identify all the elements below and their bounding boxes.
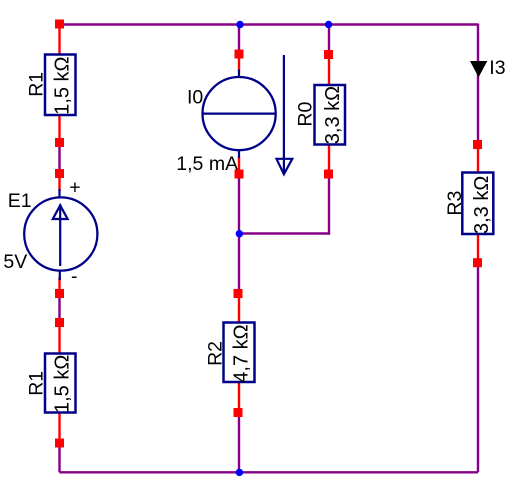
E1 arrow shaft xyxy=(59,204,61,266)
E1 arrow head open triangle xyxy=(53,205,68,219)
terminal square R0 top xyxy=(324,50,333,59)
svg-text:R1: R1 xyxy=(26,371,48,396)
lead red R1 top xyxy=(58,24,60,55)
svg-text:1,5 kΩ: 1,5 kΩ xyxy=(51,56,73,114)
pin stub E1 top xyxy=(58,189,60,199)
resistor R0 box xyxy=(315,85,346,145)
node junction dot bottom xyxy=(236,469,243,476)
lead red E1 minus terminal xyxy=(58,278,60,297)
current arrow I3 filled xyxy=(470,61,487,77)
pin stub I0 bottom xyxy=(238,148,240,158)
terminal square R2 bottom xyxy=(234,408,243,417)
wire top net to R0 xyxy=(328,25,330,53)
terminal square E1 minus xyxy=(55,289,64,298)
svg-text:R2: R2 xyxy=(204,341,226,366)
svg-text:E1: E1 xyxy=(8,190,32,212)
wire bottom net xyxy=(60,471,479,473)
resistor R3 box xyxy=(462,173,493,235)
wire left bottom vertical xyxy=(58,446,60,472)
terminal square lower R1 top xyxy=(55,318,64,327)
resistor R1 upper box xyxy=(45,55,76,116)
terminal square lower R1 bottom xyxy=(55,439,64,448)
wire R2 to bottom net xyxy=(238,414,240,472)
svg-text:I3: I3 xyxy=(489,57,505,79)
lead red R0 bottom xyxy=(328,144,330,177)
lead red R2 bottom xyxy=(238,382,240,415)
svg-text:-: - xyxy=(71,266,78,288)
wire I0 to node B xyxy=(238,177,240,292)
pin stub E1 bottom xyxy=(59,270,61,280)
terminal square R0 bottom xyxy=(324,170,333,179)
wire top net across top xyxy=(60,23,479,25)
lead red R1 bottom xyxy=(58,114,60,144)
lead red lower R1 top xyxy=(58,321,60,354)
I0 chord horizontal line xyxy=(204,112,275,114)
svg-text:+: + xyxy=(69,176,80,198)
svg-text:4,7 kΩ: 4,7 kΩ xyxy=(231,324,253,382)
lead red E1 plus terminal xyxy=(58,172,60,191)
wire right side lower segment xyxy=(477,266,479,472)
wire between E1 and lower R1 xyxy=(58,296,60,321)
wire top net to I0 xyxy=(238,25,240,52)
lead red R3 top xyxy=(477,141,479,173)
svg-text:3,3 kΩ: 3,3 kΩ xyxy=(322,86,344,144)
pin stub I0 top xyxy=(238,70,240,80)
svg-text:R0: R0 xyxy=(294,102,316,127)
I0 direction arrow open head xyxy=(277,159,293,174)
voltage source E1 circle xyxy=(24,197,97,270)
node junction dot B middle xyxy=(236,230,243,237)
wire R0 down to node B xyxy=(328,177,330,235)
lead red I0 top xyxy=(238,52,240,71)
svg-text:R3: R3 xyxy=(444,191,466,216)
lead red R2 top xyxy=(238,292,240,323)
svg-text:3,3 kΩ: 3,3 kΩ xyxy=(471,176,493,234)
terminal square R3 top xyxy=(473,140,482,149)
terminal square R1 top at top-left corner xyxy=(55,20,64,29)
lead red R3 bottom xyxy=(477,234,479,266)
wire between R1 and E1 xyxy=(58,144,60,172)
lead red I0 bottom xyxy=(238,157,240,178)
svg-text:5V: 5V xyxy=(3,251,27,273)
terminal square I0 bottom xyxy=(235,170,244,179)
I0 direction arrow shaft xyxy=(283,55,285,172)
resistor R1 lower box xyxy=(45,354,76,413)
node junction dot top of R0 xyxy=(325,21,332,28)
terminal square R2 top xyxy=(234,289,243,298)
resistor R2 box xyxy=(224,323,255,383)
svg-text:1,5 kΩ: 1,5 kΩ xyxy=(51,355,73,413)
node junction dot top left of I0 xyxy=(236,21,243,28)
lead red R0 top xyxy=(328,52,330,86)
terminal square R3 bottom xyxy=(473,258,482,267)
wire right side upper segment xyxy=(477,24,479,142)
current source I0 circle xyxy=(203,77,276,150)
terminal square E1 plus xyxy=(55,169,64,178)
svg-text:1,5 mA: 1,5 mA xyxy=(176,153,238,175)
svg-text:I0: I0 xyxy=(187,87,203,109)
wire node B horizontal to R0 branch xyxy=(239,232,329,234)
terminal square I0 top xyxy=(235,50,244,59)
svg-text:R1: R1 xyxy=(26,72,48,97)
lead red lower R1 bottom xyxy=(58,412,60,446)
terminal square R1 bottom xyxy=(55,138,64,147)
